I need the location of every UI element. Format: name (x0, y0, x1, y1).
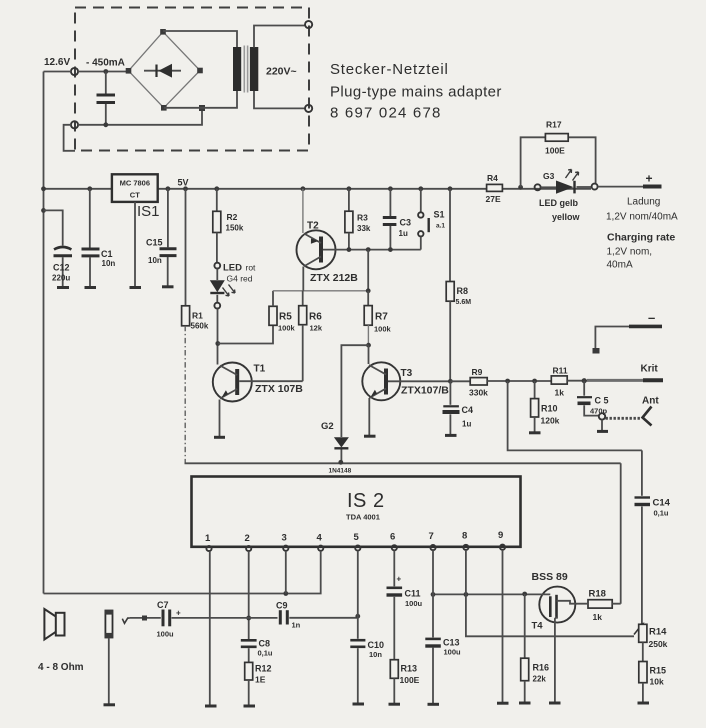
capacitor C10 10n (350, 640, 384, 703)
svg-text:Plug-type mains adapter: Plug-type mains adapter (330, 84, 502, 101)
terminal minus end blob (593, 348, 600, 354)
pin 1 (205, 533, 212, 551)
junction T2 collector (301, 186, 306, 191)
svg-text:T3: T3 (401, 368, 413, 379)
wire common node R1/G2/R18 (185, 462, 621, 464)
svg-text:R10: R10 (541, 404, 558, 414)
capacitor C15 10n (146, 189, 177, 286)
svg-text:+: + (397, 575, 402, 584)
pin 8 (462, 531, 469, 551)
wire T2 emitter down to bias line (302, 267, 304, 291)
capacitor C14 0,1u (635, 450, 671, 624)
svg-text:C4: C4 (462, 405, 474, 415)
wire primary bottom (254, 91, 305, 108)
junction R10 tap (532, 379, 537, 384)
LED G3 yellow (541, 170, 591, 194)
wire R1 lower lead dashed (184, 326, 186, 464)
svg-text:10n: 10n (102, 259, 116, 268)
wire IS1 ground pin (134, 202, 136, 287)
svg-text:1: 1 (205, 533, 211, 544)
resistor R6 12k (299, 291, 323, 381)
regulator IS1 MC7806 (112, 174, 158, 202)
junction pin8 gate (464, 592, 469, 597)
svg-text:150k: 150k (226, 224, 244, 233)
ground stub C4 (445, 434, 457, 437)
svg-text:C10: C10 (368, 640, 385, 650)
transistor T3 ZTX107B (362, 362, 450, 400)
svg-text:9: 9 (498, 530, 503, 541)
wire to charge terminal (598, 186, 643, 188)
svg-text:8: 8 (462, 531, 467, 542)
junction R16 gate (522, 592, 527, 597)
wire DC+ to bridge (78, 71, 129, 73)
wire R9 node to C14 (508, 381, 642, 450)
junction R2 (214, 186, 219, 191)
mains adapter dashed enclosure (75, 8, 309, 151)
svg-text:2: 2 (245, 533, 250, 544)
wire R5 bottom link (218, 325, 273, 343)
svg-text:1n: 1n (292, 621, 301, 630)
transformer core (244, 46, 247, 93)
svg-text:1k: 1k (555, 388, 565, 398)
svg-text:10k: 10k (650, 677, 664, 687)
svg-text:100u: 100u (444, 648, 462, 657)
ground stub antenna (597, 430, 608, 433)
bridge rectifier (126, 29, 203, 111)
wire bridge bottom to transformer (164, 91, 237, 108)
resistor R13 100E (390, 660, 419, 704)
capacitor C13 100u (425, 638, 461, 704)
ground stub C12 (57, 286, 69, 289)
capacitor C8 0,1u (241, 639, 273, 663)
svg-text:R13: R13 (401, 664, 418, 674)
svg-text:- 450mA: - 450mA (86, 58, 125, 69)
capacitor C7 100u (157, 600, 182, 639)
svg-text:8 697 024 678: 8 697 024 678 (330, 105, 442, 122)
resistor R3 33k (345, 189, 371, 250)
ground stub C15 (162, 285, 174, 288)
wire DC- return (78, 108, 202, 125)
svg-text:0,1u: 0,1u (258, 649, 273, 658)
junction R5 tap (215, 341, 220, 346)
terminal mains top (305, 21, 312, 28)
svg-text:Charging rate: Charging rate (607, 232, 675, 244)
svg-text:LED: LED (223, 263, 242, 274)
diode G2 1N4148 (321, 421, 352, 475)
svg-text:C11: C11 (405, 589, 421, 599)
ground stub R14/R15 (638, 702, 650, 705)
svg-text:S1: S1 (434, 210, 445, 220)
svg-text:C14: C14 (653, 498, 671, 509)
resistor R12 1E (245, 662, 272, 705)
svg-text:T2: T2 (307, 221, 319, 232)
pin 7 (429, 531, 436, 550)
junction (103, 122, 108, 127)
resistor R18 1k (576, 589, 621, 623)
pin 2 (245, 533, 252, 551)
junction hook lead (142, 616, 147, 621)
pin 3 (282, 533, 289, 551)
junction R3 base node (347, 247, 352, 252)
svg-text:R12: R12 (255, 664, 272, 674)
LED G4 red (210, 263, 256, 309)
svg-text:250k: 250k (649, 639, 668, 649)
svg-text:220V~: 220V~ (266, 66, 297, 78)
terminal DC- (71, 121, 78, 128)
svg-text:6: 6 (390, 532, 395, 543)
wire pin 1 (209, 551, 211, 705)
svg-text:1u: 1u (399, 229, 408, 238)
svg-text:Krit: Krit (641, 364, 659, 375)
svg-text:T4: T4 (532, 621, 544, 632)
svg-text:5.6M: 5.6M (456, 299, 472, 306)
svg-text:R2: R2 (227, 212, 238, 222)
svg-text:R11: R11 (553, 366, 568, 376)
potentiometer R14 250k (634, 624, 668, 662)
wire base line to R9 (450, 380, 470, 382)
wire pin 3 stub (285, 551, 287, 594)
svg-text:R17: R17 (546, 120, 562, 130)
svg-text:R16: R16 (533, 663, 550, 673)
svg-text:ZTX107/B: ZTX107/B (401, 385, 449, 397)
svg-text:10n: 10n (148, 256, 162, 265)
svg-text:33k: 33k (357, 224, 371, 233)
svg-text:G2: G2 (321, 421, 334, 432)
svg-text:R15: R15 (650, 666, 667, 676)
svg-text:1N4148: 1N4148 (329, 468, 352, 475)
svg-text:40mA: 40mA (607, 260, 633, 271)
svg-text:10n: 10n (369, 650, 382, 659)
wire primary top (254, 26, 305, 48)
junction R3 (347, 186, 352, 191)
svg-text:C8: C8 (259, 639, 271, 649)
svg-text:22k: 22k (533, 675, 547, 684)
junction C3 (388, 186, 393, 191)
resistor R5 100k (269, 291, 296, 333)
svg-text:100E: 100E (545, 146, 565, 156)
svg-text:1,2V nom/40mA: 1,2V nom/40mA (606, 212, 678, 223)
ground stub C10 (353, 703, 365, 706)
junction T3 base / R8 / C4 (448, 379, 453, 384)
svg-text:R5: R5 (279, 312, 292, 323)
junction T3 collector node (366, 343, 371, 348)
svg-text:0,1u: 0,1u (654, 509, 669, 518)
wire pin 9 (502, 550, 504, 702)
capacitor C3 1u (383, 189, 411, 250)
svg-text:MC 7806: MC 7806 (120, 179, 150, 188)
svg-text:R3: R3 (357, 213, 368, 223)
svg-text:IS 2: IS 2 (347, 490, 385, 512)
pin 6 (390, 532, 397, 551)
capacitor C9 1n (276, 601, 301, 630)
resistor R10 120k (531, 381, 560, 432)
svg-text:100u: 100u (405, 599, 423, 608)
junction pin 2 input (246, 616, 251, 621)
ground stub C1 (85, 286, 97, 289)
svg-text:T1: T1 (254, 364, 266, 375)
ground stub R12 (244, 705, 256, 708)
svg-text:C9: C9 (276, 601, 288, 611)
svg-text:C 5: C 5 (595, 396, 609, 406)
wire earphone thick lead (587, 379, 644, 382)
switch S1 (418, 189, 445, 250)
wire T3 emitter (368, 398, 370, 435)
svg-text:C3: C3 (400, 218, 412, 228)
svg-text:12.6V: 12.6V (44, 57, 70, 68)
svg-text:7: 7 (429, 531, 434, 542)
earphone hook symbol (122, 618, 129, 623)
svg-text:IS1: IS1 (137, 203, 160, 220)
svg-text:1,2V nom,: 1,2V nom, (607, 247, 653, 258)
wire T4 source (554, 622, 556, 702)
svg-text:+: + (176, 609, 181, 618)
capacitor C1 10n (82, 189, 116, 287)
svg-text:LED gelb: LED gelb (539, 198, 579, 208)
junction C1 (87, 186, 92, 191)
resistor R4 (486, 173, 503, 204)
svg-text:1k: 1k (593, 612, 603, 622)
junction R9 output node (505, 379, 510, 384)
antenna symbol (643, 407, 652, 426)
resistor R15 10k (639, 662, 666, 703)
svg-text:CT: CT (130, 191, 140, 200)
junction C5 tap (582, 378, 587, 383)
svg-text:5V: 5V (178, 178, 189, 188)
resistor R2 150k (213, 189, 244, 262)
resistor R16 22k (521, 594, 549, 702)
ground stub pin 9 (497, 702, 509, 705)
wire left supply rail vertical (43, 72, 45, 594)
junction R8 (448, 186, 453, 191)
svg-text:C1: C1 (101, 249, 113, 259)
svg-text:BSS 89: BSS 89 (532, 571, 568, 583)
wire DC+ to left rail (44, 71, 72, 73)
wire T4 gate (433, 593, 550, 595)
svg-text:Stecker-Netzteil: Stecker-Netzteil (330, 61, 449, 78)
svg-text:ZTX 107B: ZTX 107B (255, 383, 303, 395)
svg-text:C7: C7 (157, 600, 169, 610)
junction R7 top tap (366, 247, 371, 252)
wire T2 base node line (323, 249, 421, 251)
ground stub T4 (549, 702, 561, 705)
pin 9 (498, 530, 505, 550)
svg-text:1u: 1u (462, 420, 471, 429)
wire pin 6 (393, 550, 395, 586)
transistor T4 BSS89 (532, 571, 577, 632)
wire ground return to pin 4 (44, 551, 321, 594)
svg-text:G4 red: G4 red (227, 274, 253, 284)
junction (103, 69, 108, 74)
svg-text:27E: 27E (486, 194, 501, 204)
svg-text:C12: C12 (53, 263, 70, 273)
wire T3 collector (368, 345, 370, 364)
junction pin 3 ground (283, 591, 288, 596)
resistor R9 330k (469, 367, 551, 398)
wire antenna coupling hatched (606, 417, 641, 420)
svg-text:100u: 100u (157, 630, 175, 639)
svg-text:Ladung: Ladung (627, 197, 660, 208)
capacitor C12 220u electrolytic (44, 210, 73, 286)
svg-text:12k: 12k (310, 324, 323, 333)
svg-text:C13: C13 (443, 638, 460, 648)
wire pin 5 (357, 551, 359, 639)
wire C9 to pin5 line (289, 617, 358, 619)
node circle antenna tap (599, 413, 605, 419)
svg-text:R7: R7 (375, 312, 388, 323)
svg-text:–: – (648, 310, 655, 325)
wire base node to R7 (367, 250, 369, 291)
transformer primary winding (250, 47, 258, 91)
pin 5 (354, 532, 361, 551)
svg-text:R1: R1 (192, 311, 203, 321)
svg-text:rot: rot (246, 263, 257, 273)
svg-text:R9: R9 (472, 367, 483, 377)
wire 5V rail horizontal (44, 188, 592, 190)
transistor T2 ZTX212B (297, 189, 359, 284)
ground stub IS1 (130, 286, 142, 289)
resistor R1 560k (182, 189, 209, 331)
IC IS2 TDA4001 (192, 477, 521, 547)
ground stub pin 1 (205, 705, 217, 708)
junction R17 left (518, 185, 523, 190)
wire LED to T1 collector (217, 309, 219, 365)
pin 4 (317, 533, 324, 551)
wire C7 to C9 (172, 617, 278, 619)
junction rail corner (41, 186, 46, 191)
wire DC- stub left (64, 125, 75, 151)
capacitor C5 470p (577, 381, 609, 416)
wire T1 emitter (219, 400, 221, 437)
svg-text:TDA 4001: TDA 4001 (346, 513, 380, 522)
capacitor (adapter filter) (105, 72, 107, 94)
junction C3 base node (388, 247, 393, 252)
svg-text:560k: 560k (191, 322, 209, 331)
resistor R17 bridge over LED (521, 120, 596, 188)
wire pin 8 (465, 550, 467, 594)
ground stub R16 (519, 702, 531, 705)
svg-text:5: 5 (354, 532, 360, 543)
svg-text:1E: 1E (255, 675, 266, 685)
junction pin 5 (355, 614, 360, 619)
transformer T (secondary winding) (233, 47, 241, 91)
svg-text:R6: R6 (309, 312, 322, 323)
svg-text:100k: 100k (278, 324, 296, 333)
junction pin7 gate (431, 592, 436, 597)
svg-text:4: 4 (317, 533, 323, 544)
svg-text:100E: 100E (400, 675, 420, 685)
wire antenna node ground (601, 420, 603, 431)
resistor R8 5.6M (446, 189, 471, 381)
svg-text:330k: 330k (469, 388, 488, 398)
terminal minus wire (595, 327, 630, 350)
transistor T1 ZTX107B (213, 363, 303, 402)
svg-text:120k: 120k (541, 416, 560, 426)
svg-text:ZTX 212B: ZTX 212B (310, 272, 358, 284)
ground stub C13 (428, 703, 440, 706)
wire hook to C7 (130, 617, 161, 619)
wire pin 7 (432, 550, 434, 637)
battery cell (105, 610, 113, 704)
terminal DC+ (71, 68, 78, 75)
ground stub R13 (389, 703, 401, 706)
resistor R11 1k (551, 366, 587, 398)
ground stub T3 (364, 435, 376, 438)
wire bias node line (273, 290, 368, 292)
node circle G3 right (592, 184, 598, 190)
svg-text:a.1: a.1 (436, 223, 445, 230)
ground stub T1 (214, 436, 225, 439)
junction bridge return (199, 105, 205, 111)
ground stub R10 (529, 431, 541, 434)
svg-text:G3: G3 (543, 171, 555, 181)
node circle G3 left (535, 184, 541, 190)
capacitor C4 1u (443, 381, 474, 434)
resistor R7 100k (364, 291, 391, 345)
svg-text:C15: C15 (146, 238, 163, 248)
junction S1 (418, 186, 423, 191)
junction C15 (166, 186, 171, 191)
svg-text:3: 3 (282, 533, 287, 544)
svg-text:R8: R8 (457, 286, 469, 296)
junction C12 branch (41, 208, 46, 213)
svg-text:4 - 8 Ohm: 4 - 8 Ohm (38, 662, 84, 673)
terminal mains bottom (305, 105, 312, 112)
svg-text:yellow: yellow (552, 212, 581, 222)
capacitor C11 100u (387, 575, 423, 660)
svg-text:Ant: Ant (642, 396, 659, 407)
junction R7 bias line (366, 288, 371, 293)
wire volume feed pin8 to R14 wiper (466, 594, 634, 636)
svg-text:+: + (646, 172, 653, 186)
svg-text:R4: R4 (487, 173, 498, 183)
ground stub battery (104, 703, 116, 706)
svg-text:R18: R18 (589, 589, 606, 600)
terminal plus thick stub (643, 185, 662, 189)
speaker (44, 609, 64, 640)
svg-text:100k: 100k (374, 325, 392, 334)
junction R1 (183, 186, 188, 191)
junction G2 on node wire (338, 460, 343, 465)
svg-text:R14: R14 (649, 627, 667, 638)
wire pin 2 (248, 551, 250, 639)
wire bridge top to transformer (163, 31, 237, 48)
wire G2 branch (341, 345, 368, 437)
wire node down to R18 (620, 463, 622, 603)
svg-text:220u: 220u (52, 274, 70, 283)
